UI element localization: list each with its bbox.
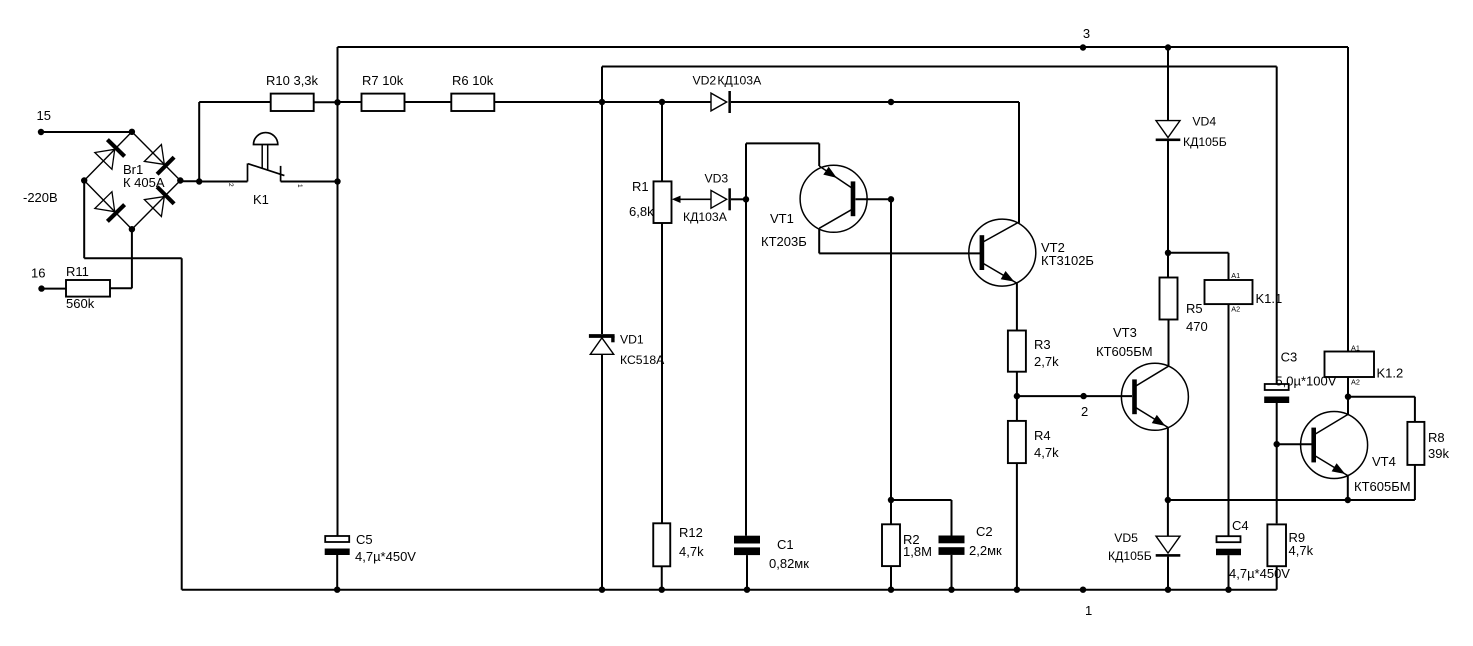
resistor R1 (preset)	[629, 179, 672, 223]
node junction	[1345, 394, 1351, 400]
wire VT3 collector	[1168, 320, 1170, 367]
svg-text:VD5: VD5	[1114, 531, 1138, 545]
label -220В	[23, 190, 58, 205]
node junction	[334, 99, 340, 105]
bridge diode D-b (top-right arm)	[144, 144, 174, 174]
terminal 16	[31, 265, 45, 292]
wire	[951, 555, 953, 590]
node junction	[1165, 587, 1171, 593]
svg-text:К 405А: К 405А	[123, 175, 165, 190]
wire	[819, 252, 980, 254]
svg-text:КТ605БМ: КТ605БМ	[1096, 344, 1153, 359]
wire	[199, 101, 271, 103]
svg-text:VT3: VT3	[1113, 325, 1137, 340]
node bridge top	[129, 129, 135, 135]
svg-text:2,7k: 2,7k	[1034, 354, 1059, 369]
wire	[199, 181, 247, 183]
node junction	[948, 587, 954, 593]
wire top rail	[338, 46, 1349, 48]
svg-text:C2: C2	[976, 524, 993, 539]
bridge diode D-c (left-bottom arm)	[95, 192, 125, 222]
svg-text:КТ605БМ: КТ605БМ	[1354, 479, 1411, 494]
wire	[281, 181, 338, 183]
svg-text:2: 2	[1081, 404, 1088, 419]
node junction	[1165, 44, 1171, 50]
wire	[180, 180, 199, 182]
label Br1 К 405А	[123, 162, 165, 190]
svg-text:R11: R11	[66, 264, 89, 279]
relay coil K1.1	[1205, 271, 1283, 314]
wire VT1 collector	[818, 228, 820, 253]
wire	[1348, 396, 1415, 398]
resistor R2 1,8М	[882, 524, 932, 566]
svg-text:R10 3,3k: R10 3,3k	[266, 73, 319, 88]
wire	[1168, 499, 1415, 501]
diode VD2 КД103А	[693, 73, 763, 113]
svg-text:КТ3102Б: КТ3102Б	[1041, 253, 1094, 268]
capacitor C3 5,0µ*100V	[1264, 350, 1337, 404]
wire	[890, 566, 892, 590]
node junction	[1225, 587, 1231, 593]
node bridge left	[81, 177, 87, 183]
svg-text:VD2: VD2	[693, 73, 717, 87]
diode VD3 КД103А	[683, 172, 731, 225]
wire	[601, 67, 603, 103]
wire	[731, 101, 891, 103]
terminal 3	[1080, 26, 1090, 51]
bridge diode D-d (bottom-right arm)	[144, 187, 174, 217]
resistor R7	[362, 73, 405, 111]
wire	[601, 354, 603, 589]
transistor VT1 КТ203Б (PNP)	[761, 165, 867, 249]
svg-text:КТ203Б: КТ203Б	[761, 234, 807, 249]
node junction	[888, 497, 894, 503]
node junction	[888, 587, 894, 593]
terminal 1	[1080, 587, 1092, 619]
wire	[131, 229, 133, 288]
wire	[1276, 403, 1278, 523]
wire node 2 line	[1017, 395, 1132, 397]
wire	[891, 101, 1019, 103]
wire	[42, 288, 67, 290]
resistor R9 4,7k	[1267, 524, 1313, 566]
wire VT4 emitter	[1347, 476, 1349, 500]
svg-text:R1: R1	[632, 179, 649, 194]
wire	[1414, 465, 1416, 500]
svg-text:6,8k: 6,8k	[629, 204, 654, 219]
node junction	[599, 587, 605, 593]
svg-text:C4: C4	[1232, 518, 1249, 533]
capacitor C2 2,2мк	[939, 524, 1003, 558]
wire	[1228, 304, 1230, 536]
node junction	[599, 99, 605, 105]
wire	[890, 199, 892, 524]
node bridge bottom	[129, 226, 135, 232]
resistor R12 4,7k	[653, 523, 704, 566]
terminal 15	[37, 108, 51, 135]
svg-text:4,7µ*450V: 4,7µ*450V	[1229, 566, 1290, 581]
wire	[338, 101, 603, 103]
wire	[746, 555, 748, 590]
wire	[337, 47, 339, 536]
svg-text:A2: A2	[1231, 305, 1240, 314]
capacitor C4 4,7µ*450V	[1216, 518, 1290, 581]
svg-text:A1: A1	[1351, 344, 1360, 353]
wire	[1228, 253, 1230, 280]
svg-text:-220В: -220В	[23, 190, 58, 205]
bridge rectifier Br1 frame	[84, 132, 180, 229]
svg-text:VT1: VT1	[770, 211, 794, 226]
wire	[745, 143, 747, 199]
terminal 2	[1080, 393, 1088, 419]
wire VT1 base	[856, 198, 892, 200]
node bridge right	[177, 177, 183, 183]
wire	[1228, 555, 1230, 590]
node junction	[1014, 393, 1020, 399]
node junction	[743, 196, 749, 202]
svg-text:R3: R3	[1034, 337, 1051, 352]
resistor R4 4,7k	[1008, 421, 1059, 463]
diode VD5 КД105Б	[1108, 531, 1180, 563]
node junction	[744, 587, 750, 593]
bridge diode D-a (left-top arm)	[95, 140, 125, 170]
svg-text:R6 10k: R6 10k	[452, 73, 494, 88]
wire	[601, 102, 603, 334]
diode VD4 КД105Б	[1156, 115, 1227, 149]
wire	[1276, 566, 1278, 590]
node junction	[196, 178, 202, 184]
wire	[1016, 372, 1018, 396]
capacitor C1 0,82мк	[734, 536, 809, 571]
svg-text:R5: R5	[1186, 301, 1203, 316]
wire	[1016, 396, 1018, 421]
wire	[1347, 47, 1349, 352]
svg-text:3: 3	[1083, 26, 1090, 41]
svg-text:4,7k: 4,7k	[1034, 445, 1059, 460]
wire	[1276, 67, 1278, 385]
svg-text:560k: 560k	[66, 296, 95, 311]
svg-text:КС518А: КС518А	[620, 353, 665, 367]
wire	[602, 101, 711, 103]
wire	[818, 143, 820, 166]
node junction	[659, 99, 665, 105]
wire VT4 collector	[1347, 397, 1349, 416]
svg-text:4,7k: 4,7k	[1289, 543, 1314, 558]
node junction	[659, 587, 665, 593]
svg-text:R8: R8	[1428, 430, 1445, 445]
wire	[1414, 397, 1416, 422]
transistor VT4 КТ605БМ (NPN)	[1301, 412, 1411, 495]
wire	[891, 499, 952, 501]
node junction	[1345, 497, 1351, 503]
zener diode VD1 КС518А	[589, 333, 665, 368]
svg-text:1,8М: 1,8М	[903, 544, 932, 559]
wire	[1167, 253, 1169, 278]
svg-text:2,2мк: 2,2мк	[969, 543, 1002, 558]
svg-text:VD3: VD3	[705, 172, 729, 186]
wire VT2 emitter	[1016, 283, 1018, 330]
wire	[951, 500, 953, 536]
svg-text:K1.1: K1.1	[1256, 291, 1283, 306]
resistor R6	[451, 73, 494, 111]
node junction	[1274, 441, 1280, 447]
svg-text:R7 10k: R7 10k	[362, 73, 404, 88]
svg-text:39k: 39k	[1428, 446, 1449, 461]
wire	[84, 257, 182, 259]
wire second rail	[602, 66, 1277, 68]
wire	[1167, 141, 1169, 253]
wire	[661, 223, 663, 523]
svg-text:1: 1	[296, 184, 303, 188]
wire	[181, 258, 183, 590]
relay coil K1.2	[1325, 344, 1404, 387]
svg-text:КД105Б: КД105Б	[1108, 549, 1152, 563]
resistor R3 2,7k	[1008, 331, 1059, 372]
node junction	[1165, 497, 1171, 503]
R1 wiper arrow	[672, 196, 711, 203]
wire	[661, 566, 663, 589]
wire	[83, 181, 85, 259]
svg-text:1: 1	[1085, 603, 1092, 618]
svg-text:VD1: VD1	[620, 333, 644, 347]
resistor R5 470	[1160, 278, 1208, 335]
wire	[1167, 557, 1169, 590]
wire VT3 emitter	[1167, 427, 1169, 500]
wire	[41, 131, 132, 133]
wire	[1016, 463, 1018, 590]
wire	[1168, 252, 1229, 254]
node junction	[888, 196, 894, 202]
wire	[746, 142, 819, 144]
relay contact K1	[227, 133, 303, 207]
node junction	[888, 99, 894, 105]
svg-text:2: 2	[227, 183, 234, 187]
wire	[745, 199, 747, 535]
resistor R10	[266, 73, 319, 111]
wire	[314, 101, 338, 103]
svg-text:КД103А: КД103А	[717, 73, 762, 87]
resistor R8 39k	[1407, 422, 1449, 465]
svg-text:K1: K1	[253, 192, 269, 207]
svg-text:R4: R4	[1034, 428, 1051, 443]
svg-text:КД105Б: КД105Б	[1183, 135, 1227, 149]
transistor VT2 КТ3102Б (NPN)	[969, 219, 1094, 286]
svg-text:0,82мк: 0,82мк	[769, 556, 809, 571]
capacitor C5 4,7µ*450V	[325, 532, 417, 564]
wire	[661, 102, 663, 182]
resistor R11	[66, 264, 110, 311]
wire bottom rail	[182, 589, 1277, 591]
node junction	[334, 178, 340, 184]
svg-text:4,7k: 4,7k	[679, 544, 704, 559]
svg-text:A1: A1	[1231, 271, 1240, 280]
wire	[1347, 377, 1349, 397]
wire	[1018, 102, 1020, 223]
svg-text:C5: C5	[356, 532, 373, 547]
svg-text:VD4: VD4	[1192, 115, 1216, 129]
wire	[1167, 48, 1169, 121]
svg-text:470: 470	[1186, 319, 1208, 334]
wire VT4 base lead	[1277, 443, 1313, 445]
wire	[336, 555, 338, 590]
svg-text:A2: A2	[1351, 377, 1360, 386]
wire	[198, 102, 200, 182]
wire	[1167, 500, 1169, 536]
svg-text:15: 15	[37, 108, 51, 123]
svg-text:4,7µ*450V: 4,7µ*450V	[355, 549, 416, 564]
node junction	[1014, 587, 1020, 593]
svg-text:K1.2: K1.2	[1377, 366, 1404, 381]
svg-text:R12: R12	[679, 525, 703, 540]
svg-text:16: 16	[31, 265, 45, 280]
svg-text:КД103А: КД103А	[683, 210, 728, 224]
svg-text:C3: C3	[1281, 350, 1298, 365]
transistor VT3 КТ605БМ (NPN)	[1096, 325, 1188, 430]
node junction	[1165, 250, 1171, 256]
wire	[731, 198, 746, 200]
node junction	[334, 587, 340, 593]
wire	[110, 287, 132, 289]
svg-text:VT4: VT4	[1372, 454, 1396, 469]
svg-text:C1: C1	[777, 537, 794, 552]
